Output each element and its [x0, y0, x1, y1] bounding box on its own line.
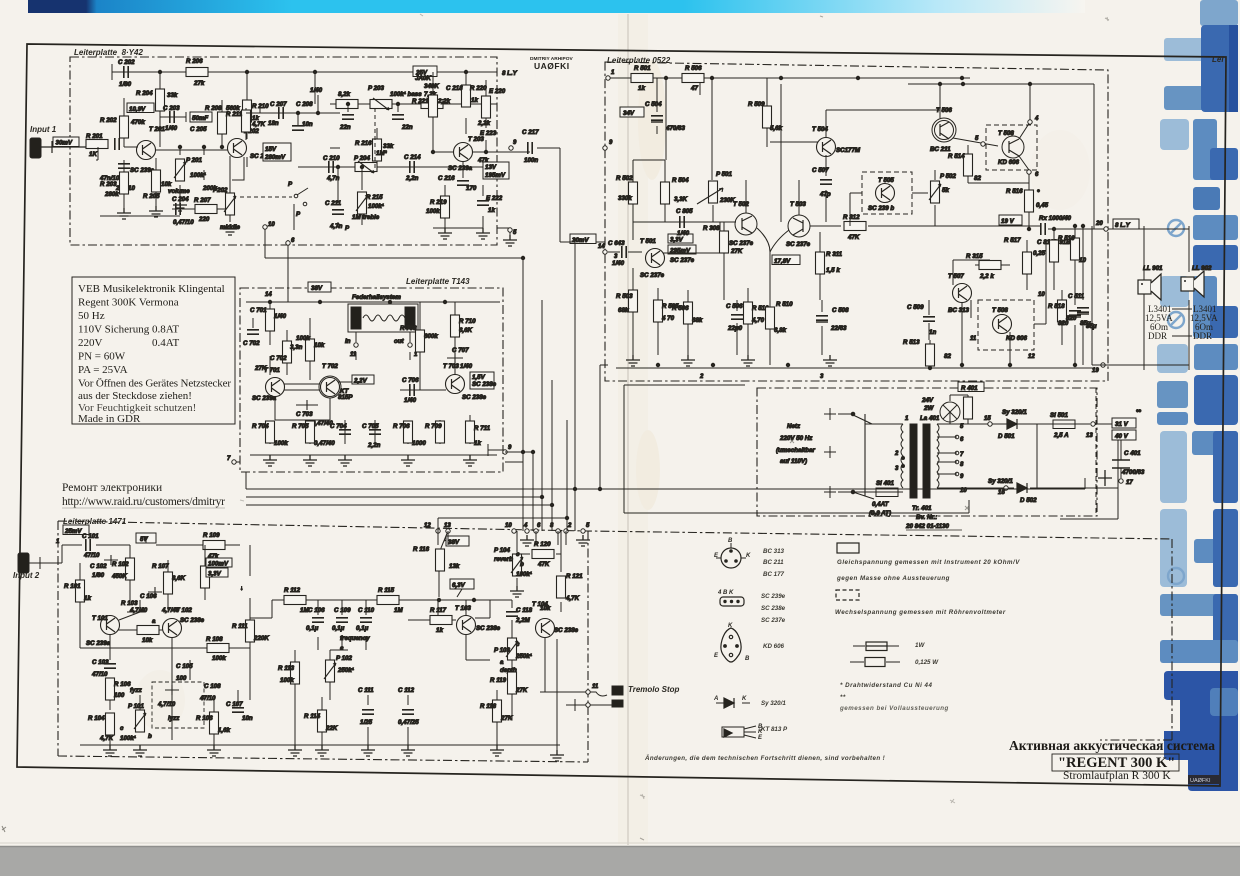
svg-text:R 111: R 111	[232, 623, 248, 630]
svg-text:SC 239a: SC 239a	[86, 640, 111, 647]
svg-text:C 202: C 202	[118, 59, 135, 66]
svg-text:R 502: R 502	[616, 175, 633, 182]
svg-text:K: K	[728, 623, 733, 629]
svg-text:R 116: R 116	[413, 546, 430, 553]
svg-text:330k: 330k	[618, 195, 632, 202]
svg-text:C 205: C 205	[190, 126, 207, 133]
svg-text:R 204: R 204	[136, 90, 153, 97]
svg-text:Активная аккустическая система: Активная аккустическая система	[1009, 738, 1215, 753]
svg-text:Si 501: Si 501	[1050, 412, 1068, 419]
svg-text:B: B	[728, 538, 733, 544]
svg-text:110V Sicherung 0.8AT: 110V Sicherung 0.8AT	[78, 324, 179, 336]
svg-text:280mV: 280mV	[264, 154, 286, 161]
svg-text:19: 19	[1092, 368, 1099, 374]
svg-text:31 V: 31 V	[1115, 421, 1129, 428]
svg-text:P 101: P 101	[128, 703, 144, 710]
svg-text:27k: 27k	[193, 80, 205, 87]
svg-text:R 510: R 510	[776, 301, 793, 308]
svg-text:T 505: T 505	[878, 177, 894, 184]
svg-text:R 210: R 210	[252, 103, 269, 110]
svg-text:R 708: R 708	[400, 325, 417, 332]
svg-text:33k: 33k	[167, 92, 178, 99]
svg-text:KT 813 P: KT 813 P	[761, 726, 788, 733]
svg-text:27K: 27K	[500, 715, 513, 722]
svg-text:auf 110V): auf 110V)	[780, 458, 807, 465]
svg-text:220: 220	[198, 216, 210, 223]
svg-text:15: 15	[984, 416, 991, 422]
svg-text:R 503: R 503	[616, 293, 633, 300]
svg-text:C 107: C 107	[226, 701, 243, 708]
svg-text:4700/63: 4700/63	[1121, 469, 1145, 476]
svg-text:fуzz: fуzz	[130, 687, 143, 694]
svg-text:R 211: R 211	[226, 111, 243, 118]
svg-text:100k: 100k	[212, 655, 226, 662]
svg-text:4,7/10: 4,7/10	[157, 701, 176, 708]
svg-text:http://www.raid.ru/customers/d: http://www.raid.ru/customers/dmitryr	[62, 496, 225, 508]
svg-text:R 308: R 308	[703, 225, 720, 232]
svg-text:T 101: T 101	[92, 615, 108, 622]
svg-text:100: 100	[114, 692, 125, 699]
svg-text:68k: 68k	[618, 307, 629, 314]
svg-text:340K: 340K	[424, 83, 439, 90]
svg-text:C 111: C 111	[358, 687, 374, 694]
svg-text:SC 238e: SC 238e	[554, 627, 579, 634]
svg-text:18n: 18n	[268, 120, 279, 127]
svg-text:4,7K: 4,7K	[99, 735, 114, 742]
svg-text:R 506: R 506	[685, 65, 702, 72]
svg-text:SC 238e: SC 238e	[761, 605, 786, 612]
svg-text:KD 606: KD 606	[763, 643, 785, 650]
svg-text:C 105: C 105	[176, 663, 193, 670]
svg-text:SC 239a: SC 239a	[252, 395, 277, 402]
svg-text:1,6k: 1,6k	[218, 727, 231, 734]
svg-text:R 115: R 115	[378, 587, 395, 594]
svg-text:R 114: R 114	[304, 713, 321, 720]
svg-text:47p: 47p	[819, 191, 831, 198]
svg-text:R 117: R 117	[430, 607, 447, 614]
svg-text:47/10: 47/10	[83, 552, 100, 559]
svg-text:c: c	[516, 551, 520, 558]
svg-text:PN = 60W: PN = 60W	[78, 351, 126, 363]
svg-text:2,2V: 2,2V	[353, 378, 368, 385]
svg-text:R 706: R 706	[393, 423, 410, 430]
svg-text:DDR: DDR	[1193, 331, 1212, 341]
svg-text:1,5V: 1,5V	[472, 374, 486, 381]
svg-text:C 207: C 207	[270, 101, 287, 108]
svg-text:2,2 k: 2,2 k	[979, 273, 994, 280]
svg-text:1k: 1k	[638, 85, 645, 92]
svg-text:SC 238e: SC 238e	[462, 394, 487, 401]
svg-text:Input 2: Input 2	[13, 571, 40, 580]
svg-text:C 511: C 511	[1068, 293, 1085, 300]
svg-text:R 705: R 705	[292, 423, 309, 430]
svg-text:100mV: 100mV	[208, 561, 229, 568]
svg-text:C 210: C 210	[323, 155, 340, 162]
svg-text:22μ0: 22μ0	[727, 325, 743, 332]
svg-text:3,3n: 3,3n	[290, 344, 303, 351]
svg-text:P 203: P 203	[368, 85, 384, 92]
svg-text:0.4AT: 0.4AT	[152, 337, 179, 349]
svg-text:E 223: E 223	[480, 130, 497, 137]
svg-text:22n: 22n	[401, 124, 413, 131]
svg-text:10: 10	[505, 523, 512, 529]
svg-text:33k: 33k	[383, 143, 394, 150]
svg-text:17,8V: 17,8V	[774, 258, 791, 265]
svg-text:220V: 220V	[78, 337, 103, 349]
svg-text:VEB Musikelektronik Klingental: VEB Musikelektronik Klingental	[78, 283, 225, 295]
svg-text:1/80: 1/80	[119, 81, 132, 88]
svg-text:R 312: R 312	[843, 214, 860, 221]
svg-text:volume: volume	[168, 188, 190, 195]
svg-text:R 704: R 704	[252, 423, 269, 430]
svg-text:R 208: R 208	[205, 105, 222, 112]
svg-text:1/40: 1/40	[612, 260, 625, 267]
svg-text:C 204: C 204	[172, 196, 189, 203]
svg-text:P 102: P 102	[336, 655, 352, 662]
svg-text:SC 238e: SC 238e	[472, 381, 497, 388]
svg-text:815P: 815P	[338, 394, 353, 401]
svg-text:T 201: T 201	[149, 126, 165, 133]
svg-text:2: 2	[894, 451, 899, 457]
svg-text:27K: 27K	[515, 687, 528, 694]
svg-text:R 107: R 107	[152, 563, 169, 570]
svg-text:Ремонт электроники: Ремонт электроники	[62, 482, 162, 494]
svg-text:1/40: 1/40	[460, 363, 473, 370]
svg-text:C 507: C 507	[812, 167, 829, 174]
svg-text:T 701: T 701	[264, 367, 280, 374]
svg-text:Made in GDR: Made in GDR	[78, 413, 141, 425]
svg-text:C 703: C 703	[296, 411, 313, 418]
svg-text:25mV: 25mV	[64, 528, 82, 535]
svg-text:R 506: R 506	[672, 305, 689, 312]
svg-text:P 204: P 204	[354, 155, 370, 162]
svg-text:R 501: R 501	[634, 65, 651, 72]
svg-text:4 70: 4 70	[661, 315, 675, 322]
svg-text:DDR: DDR	[1148, 331, 1167, 341]
svg-text:SC 237e: SC 237e	[670, 257, 695, 264]
svg-text:Rx 1000/40: Rx 1000/40	[1039, 215, 1072, 222]
svg-text:aus der Steckdose ziehen!: aus der Steckdose ziehen!	[78, 390, 192, 402]
svg-text:100k¹ bass: 100k¹ bass	[390, 91, 422, 98]
svg-text:3,3V: 3,3V	[208, 571, 222, 578]
svg-text:2,5 A: 2,5 A	[1053, 432, 1069, 439]
svg-text:R 106: R 106	[114, 681, 131, 688]
svg-text:R 202: R 202	[100, 117, 117, 124]
svg-text:38V: 38V	[311, 285, 323, 292]
svg-text:KD 606: KD 606	[998, 159, 1020, 166]
svg-text:P202: P202	[213, 187, 228, 194]
svg-text:Gleichspannung gemessen mit In: Gleichspannung gemessen mit Instrument 2…	[837, 559, 1020, 566]
svg-text:La 401: La 401	[920, 415, 940, 422]
svg-text:40 V: 40 V	[1114, 433, 1129, 440]
svg-text:T 203: T 203	[468, 136, 484, 143]
svg-text:2,2n: 2,2n	[405, 175, 419, 182]
svg-text:13: 13	[1086, 433, 1093, 439]
svg-text:C 103: C 103	[92, 659, 109, 666]
svg-text:T 102: T 102	[176, 607, 192, 614]
svg-text:38V: 38V	[448, 539, 460, 546]
svg-text:C 643: C 643	[608, 240, 625, 247]
svg-text:0,1μ: 0,1μ	[332, 625, 345, 632]
svg-text:T 508: T 508	[998, 130, 1014, 137]
svg-text:450K: 450K	[111, 573, 127, 580]
svg-text:0,47/25: 0,47/25	[398, 719, 419, 726]
svg-text:P 502: P 502	[940, 173, 956, 180]
svg-text:R 709: R 709	[425, 423, 442, 430]
svg-text:6,3V: 6,3V	[452, 582, 466, 589]
svg-text:82: 82	[944, 353, 951, 360]
svg-text:c: c	[516, 641, 520, 648]
svg-text:C 102: C 102	[90, 563, 107, 570]
svg-text:Tr. 401: Tr. 401	[912, 505, 932, 512]
svg-text:C 705: C 705	[362, 423, 379, 430]
svg-text:4,7K: 4,7K	[251, 121, 266, 128]
svg-text:Wechselspannung gemessen mit: Wechselspannung gemessen mit Röhrenvoltm…	[835, 609, 1006, 616]
svg-text:C 701: C 701	[250, 307, 267, 314]
svg-text:B: B	[745, 656, 750, 662]
svg-text:Iуzz: Iуzz	[168, 715, 180, 722]
svg-text:C 208: C 208	[296, 101, 313, 108]
svg-text:JA0K: JA0K	[415, 75, 431, 82]
svg-text:**: **	[840, 694, 846, 701]
svg-text:470k: 470k	[130, 119, 145, 126]
svg-text:UAØFKI: UAØFKI	[1190, 778, 1211, 784]
svg-text:0,1μ: 0,1μ	[306, 625, 319, 632]
svg-text:C 101: C 101	[82, 533, 99, 540]
svg-text:A: A	[713, 696, 718, 702]
svg-text:1K: 1K	[89, 151, 97, 158]
svg-text:22K: 22K	[325, 725, 338, 732]
svg-text:1k: 1k	[488, 207, 495, 214]
svg-text:Leiterplatte T143: Leiterplatte T143	[406, 277, 470, 286]
svg-text:R 401: R 401	[961, 385, 978, 392]
svg-text:C 706: C 706	[402, 377, 419, 384]
svg-text:C 110: C 110	[358, 607, 375, 614]
svg-text:8 L.Y: 8 L.Y	[502, 70, 518, 77]
svg-text:34V: 34V	[623, 110, 635, 117]
svg-text:* Drahtwiderstand Cu Ni 44: * Drahtwiderstand Cu Ni 44	[840, 682, 932, 689]
svg-text:frequency: frequency	[340, 635, 370, 642]
svg-text:(0,8 AT): (0,8 AT)	[869, 510, 891, 517]
svg-text:Sy 320/1: Sy 320/1	[988, 478, 1013, 485]
svg-text:5V: 5V	[140, 536, 148, 543]
svg-text:C 401: C 401	[1124, 450, 1141, 457]
svg-text:Netz: Netz	[787, 423, 801, 430]
svg-text:R 201: R 201	[86, 133, 103, 140]
svg-text:Leiterplatte 0522: Leiterplatte 0522	[607, 56, 671, 65]
svg-text:10,9V: 10,9V	[129, 106, 146, 113]
svg-text:6,8k: 6,8k	[774, 327, 787, 334]
svg-text:16: 16	[998, 490, 1005, 496]
svg-text:SC 237e: SC 237e	[640, 272, 665, 279]
svg-text:Regent 300K Vermona: Regent 300K Vermona	[78, 297, 179, 309]
svg-text:11: 11	[350, 352, 357, 358]
svg-text:1,5 k: 1,5 k	[826, 267, 840, 274]
svg-text:8 L.Y: 8 L.Y	[1115, 222, 1131, 229]
svg-text:R 121: R 121	[566, 573, 583, 580]
svg-text:Sy 320/1: Sy 320/1	[761, 700, 786, 707]
svg-text:T 501: T 501	[640, 238, 656, 245]
svg-text:T 103: T 103	[455, 605, 471, 612]
svg-text:C 508: C 508	[832, 307, 849, 314]
svg-text:(umschaltbar: (umschaltbar	[776, 447, 815, 454]
svg-text:SC 239 b: SC 239 b	[868, 205, 894, 212]
svg-text:100k¹: 100k¹	[368, 203, 384, 210]
svg-text:T 506: T 506	[936, 107, 952, 114]
svg-text:10: 10	[268, 222, 275, 228]
svg-text:0,1μ: 0,1μ	[356, 625, 369, 632]
svg-text:c: c	[340, 645, 344, 652]
svg-text:R 516: R 516	[1006, 188, 1023, 195]
svg-text:14: 14	[598, 244, 605, 250]
svg-text:30mV: 30mV	[56, 140, 73, 147]
svg-text:2,2n: 2,2n	[367, 442, 381, 449]
svg-text:BC 313: BC 313	[948, 307, 970, 314]
svg-text:2W: 2W	[923, 405, 934, 412]
svg-text:600k: 600k	[424, 333, 438, 340]
svg-text:**: **	[1136, 409, 1141, 416]
svg-text:C 217: C 217	[522, 129, 539, 136]
svg-text:4: 4	[523, 523, 528, 529]
svg-text:50 Hz: 50 Hz	[78, 310, 105, 322]
svg-text:17: 17	[1126, 480, 1133, 486]
svg-text:SC 237e: SC 237e	[761, 617, 786, 624]
svg-text:R 504: R 504	[672, 177, 689, 184]
svg-text:SC 237e: SC 237e	[729, 240, 754, 247]
svg-text:1k: 1k	[474, 440, 481, 447]
svg-text:SC 239e: SC 239e	[761, 593, 786, 600]
svg-text:a: a	[152, 618, 156, 625]
svg-text:10k: 10k	[142, 637, 153, 644]
svg-text:C 506: C 506	[726, 303, 743, 310]
svg-text:1k: 1k	[84, 595, 91, 602]
svg-text:27K: 27K	[730, 248, 743, 255]
svg-text:Federhallsystem: Federhallsystem	[352, 294, 401, 301]
svg-text:R 514: R 514	[948, 153, 965, 160]
svg-text:T 507: T 507	[948, 273, 964, 280]
svg-text:1k: 1k	[436, 627, 443, 634]
svg-text:20 842 01-1130: 20 842 01-1130	[905, 523, 949, 530]
svg-text:C 214: C 214	[404, 154, 421, 161]
svg-text:15V: 15V	[265, 146, 277, 153]
svg-text:3,3K: 3,3K	[674, 196, 688, 203]
svg-text:SC 237e: SC 237e	[786, 241, 811, 248]
svg-text:100: 100	[176, 675, 187, 682]
svg-text:47: 47	[690, 85, 698, 92]
svg-text:R 509: R 509	[748, 101, 765, 108]
svg-text:in: in	[345, 338, 351, 345]
svg-text:b: b	[148, 733, 152, 740]
svg-text:R 311: R 311	[826, 251, 843, 258]
svg-text:13: 13	[444, 523, 451, 529]
svg-text:47/10: 47/10	[91, 671, 108, 678]
svg-text:4,7n: 4,7n	[329, 223, 343, 230]
svg-text:K: K	[742, 696, 747, 702]
svg-text:85μ: 85μ	[1080, 320, 1091, 327]
svg-text:SC 238e: SC 238e	[476, 625, 501, 632]
svg-text:82: 82	[974, 175, 981, 182]
svg-text:C 211: C 211	[325, 200, 342, 207]
svg-text:C 707: C 707	[452, 347, 469, 354]
svg-text:0,25: 0,25	[1033, 250, 1046, 257]
svg-text:LL 902: LL 902	[1192, 265, 1212, 272]
svg-text:LL 901: LL 901	[1143, 265, 1163, 272]
svg-text:Stromlaufplan R 300 K: Stromlaufplan R 300 K	[1063, 770, 1171, 782]
svg-text:E 222: E 222	[486, 195, 503, 202]
svg-text:Lei: Lei	[1212, 55, 1224, 64]
svg-text:C 218: C 218	[446, 85, 463, 92]
svg-text:47K: 47K	[537, 561, 550, 568]
svg-text:220V 50 Hz: 220V 50 Hz	[779, 435, 813, 442]
svg-text:1M: 1M	[394, 607, 403, 614]
svg-text:P 104: P 104	[494, 547, 510, 554]
svg-text:4,70: 4,70	[751, 317, 765, 324]
svg-text:a: a	[500, 659, 504, 666]
svg-text:Input 1: Input 1	[30, 125, 57, 134]
svg-text:3,3V: 3,3V	[670, 237, 684, 244]
svg-text:P 501: P 501	[716, 171, 732, 178]
svg-text:1/40: 1/40	[677, 230, 690, 237]
svg-text:4: 4	[1034, 116, 1039, 122]
svg-text:12: 12	[424, 523, 431, 529]
svg-text:T 104: T 104	[532, 601, 548, 608]
svg-text:0,47/40: 0,47/40	[314, 440, 335, 447]
svg-text:D 502: D 502	[1020, 497, 1037, 504]
svg-text:R 221: R 221	[412, 98, 429, 105]
svg-text:0,125 W: 0,125 W	[915, 659, 939, 666]
svg-text:Sy 320/1: Sy 320/1	[1002, 409, 1027, 416]
svg-text:P 201: P 201	[186, 157, 202, 164]
svg-text:R 215: R 215	[366, 194, 383, 201]
svg-text:220K: 220K	[253, 635, 269, 642]
svg-text:R 112: R 112	[284, 587, 301, 594]
svg-text:C 702: C 702	[270, 355, 287, 362]
svg-text:100k¹: 100k¹	[516, 571, 532, 578]
svg-text:100k: 100k	[296, 335, 310, 342]
svg-text:SC 239a: SC 239a	[130, 167, 155, 174]
svg-text:Tremolo Stop: Tremolo Stop	[628, 685, 680, 694]
svg-text:24V: 24V	[921, 397, 934, 404]
svg-text:C 108: C 108	[204, 683, 221, 690]
svg-text:11: 11	[970, 336, 977, 342]
svg-text:R 113: R 113	[278, 665, 295, 672]
svg-text:R 711: R 711	[474, 425, 491, 432]
svg-text:195mV: 195mV	[485, 172, 506, 179]
svg-text:100k: 100k	[274, 440, 288, 447]
svg-text:R 106: R 106	[196, 715, 213, 722]
svg-text:T 508: T 508	[992, 307, 1008, 314]
svg-text:0,45: 0,45	[1036, 202, 1049, 209]
svg-text:C 203: C 203	[163, 105, 180, 112]
svg-text:T 702: T 702	[322, 363, 338, 370]
svg-text:BC 177: BC 177	[763, 571, 785, 578]
svg-text:R 120: R 120	[534, 541, 551, 548]
svg-text:R 206: R 206	[186, 58, 203, 65]
svg-text:C 704: C 704	[330, 423, 347, 430]
svg-text:100k: 100k	[426, 208, 440, 215]
svg-text:out: out	[394, 338, 405, 345]
svg-text:10k: 10k	[161, 181, 172, 188]
svg-text:2: 2	[699, 374, 704, 380]
svg-text:reverb: reverb	[494, 556, 513, 563]
svg-text:100n: 100n	[524, 157, 538, 164]
svg-text:11: 11	[592, 684, 599, 690]
svg-text:R 203: R 203	[100, 181, 117, 188]
svg-text:1k: 1k	[471, 97, 478, 104]
svg-text:1/25: 1/25	[360, 719, 373, 726]
svg-text:C 702: C 702	[243, 340, 260, 347]
svg-text:C 118: C 118	[516, 607, 533, 614]
